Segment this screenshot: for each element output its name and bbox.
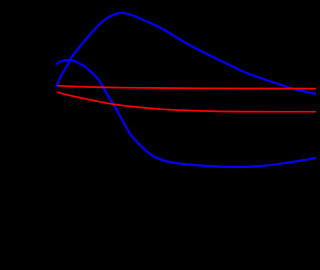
curve blue A (large arch peaking near x=120) xyxy=(57,13,317,94)
curve red 1 (nearly horizontal line ~y=87) xyxy=(58,86,316,89)
curve blue B (small arc then steep fall to minimum near x=240) xyxy=(57,60,317,167)
curve red 2 (slow decay toward y=112) xyxy=(58,92,316,112)
